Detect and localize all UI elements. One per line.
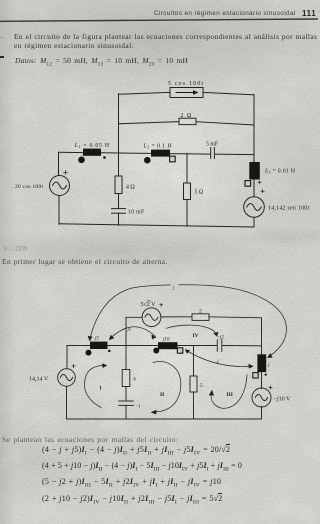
resistor 4 [122, 370, 130, 387]
inductor L2 body [151, 150, 170, 157]
wire 4ohm branch [118, 153, 120, 176]
inductor L3 body [249, 162, 259, 180]
problem number remnant [1, 31, 3, 40]
svg-text:I: I [100, 386, 102, 392]
source circle 20cos100t [50, 176, 70, 196]
square mark of L1 [103, 156, 105, 158]
source circle 5sqrt2 [142, 308, 161, 327]
wire top branch right [203, 92, 254, 94]
capacitor -j plates [119, 400, 134, 402]
capacitor 5mF plates [210, 148, 212, 159]
plus of left source [64, 171, 67, 174]
wire main row [67, 345, 90, 347]
svg-text:j5: j5 [94, 337, 99, 342]
dot of L1 [78, 157, 85, 164]
resistor 4ohm [115, 176, 122, 194]
arrowhead M23 arc left [185, 349, 190, 354]
plus of -j10 source [269, 386, 272, 389]
dot mark near j coil square [265, 374, 267, 376]
arrowhead M13 arc right [267, 353, 273, 358]
open square of L3 [245, 181, 251, 187]
svg-text:4 Ω: 4 Ω [126, 185, 135, 191]
plus of 14,14V source [72, 364, 75, 367]
open square of L2 [170, 156, 176, 162]
svg-text:II: II [160, 392, 164, 398]
resistor 2ohm [179, 118, 196, 124]
svg-text:−j2: −j2 [217, 336, 225, 341]
svg-text:2 Ω: 2 Ω [181, 113, 193, 119]
statement paragraph [14, 32, 317, 51]
resistor 2 [192, 314, 209, 321]
margin artifact dash [0, 56, 4, 58]
wire 5 column [193, 346, 195, 377]
mutual arc j (M23) [187, 351, 252, 367]
inductor L1 body [83, 149, 101, 156]
datos line [15, 56, 188, 67]
svg-text:IV: IV [193, 333, 199, 339]
wire top source branch [125, 317, 127, 345]
paper gap behind arc label j [171, 283, 179, 290]
equations intro [2, 435, 178, 444]
square mark of j5 [108, 350, 110, 352]
svg-text:j5: j5 [127, 328, 132, 333]
svg-text:4: 4 [133, 377, 136, 383]
mesh arrow III [211, 375, 247, 409]
svg-text:5 mF: 5 mF [206, 142, 219, 148]
LOWER CIRCUIT [0, 282, 320, 430]
mesh arrow I [84, 365, 103, 407]
svg-text:j: j [216, 359, 219, 365]
arrowhead M13 arc left [88, 336, 93, 341]
source circle 14,14 [58, 369, 76, 387]
svg-text:L1 = 0.05 H: L1 = 0.05 H [74, 143, 110, 149]
svg-text:−j10 V: −j10 V [274, 397, 291, 403]
wire main row [59, 151, 84, 153]
plus of 5sqrt2 source [160, 303, 163, 306]
header page number [302, 9, 316, 18]
dot of j5 [86, 350, 92, 356]
wire left column [66, 346, 68, 369]
wire right column lower [261, 372, 263, 389]
dot of L2 [144, 157, 151, 164]
svg-text:2: 2 [199, 309, 202, 315]
dot of j10 [153, 348, 159, 354]
mutual arc j5 (M12) [111, 327, 156, 338]
svg-text:20 cos 100t: 20 cos 100t [15, 184, 43, 190]
solution heading [4, 245, 27, 253]
mesh arrow II [153, 362, 181, 412]
svg-text:14,142 sen 100t: 14,142 sen 100t [268, 206, 309, 212]
wire bottom row [67, 418, 262, 420]
sine in right source [247, 204, 261, 211]
svg-text:14,14 V: 14,14 V [29, 377, 49, 383]
arrowhead M23 arc right [248, 364, 253, 369]
svg-text:10 mF: 10 mF [128, 210, 145, 216]
source circle 14142sen100t [244, 197, 265, 218]
svg-text:L2 = 0.1 H: L2 = 0.1 H [143, 144, 173, 150]
plus near L3 square [258, 181, 261, 184]
resistor 5ohm [184, 183, 191, 200]
UPPER CIRCUIT [0, 75, 320, 240]
open square of j10 [177, 348, 182, 353]
wire left column [58, 152, 60, 175]
wire top branch left [119, 92, 171, 94]
radical overbar of 5sqrt2 [147, 300, 150, 302]
equations [42, 445, 230, 457]
wire right riser [253, 94, 255, 162]
arrowhead j5 arc left [109, 335, 114, 341]
wire left riser of top branches [118, 94, 120, 153]
current source box 5cos100t [170, 88, 203, 98]
inductor j5 body [90, 342, 108, 349]
wire 2ohm branch [119, 122, 180, 124]
mesh arrowhead II [151, 410, 157, 415]
mesh arrowhead IV [213, 332, 218, 337]
wire 5ohm branch [186, 153, 188, 183]
solution intro [2, 257, 168, 266]
svg-text:5√2 V: 5√2 V [141, 301, 157, 308]
capacitor 10mF plates [112, 208, 126, 210]
source circle -j10 [252, 388, 271, 407]
svg-text:j10: j10 [162, 338, 170, 343]
capacitor -j2 plates [216, 340, 218, 352]
inductor j body [257, 354, 266, 372]
mesh arrow IV [167, 325, 217, 334]
wire middle column [125, 346, 127, 370]
svg-text:5 Ω: 5 Ω [195, 190, 204, 196]
svg-text:L3 = 0.01 H: L3 = 0.01 H [264, 169, 296, 175]
arrow in current source [176, 92, 193, 94]
resistor 5 [190, 376, 197, 392]
mesh arrowhead I [102, 363, 107, 368]
svg-text:j: j [267, 363, 270, 368]
mesh arrowhead III [209, 390, 214, 396]
header title [154, 10, 296, 17]
wire bottom row [59, 224, 254, 227]
arrowhead j5 arc right [151, 334, 156, 339]
plus of right source [261, 190, 264, 193]
wire right column top [261, 318, 263, 355]
svg-text:III: III [227, 392, 233, 398]
svg-text:5 cos 100t: 5 cos 100t [168, 81, 204, 87]
svg-text:−j: −j [136, 404, 141, 409]
open square of j coil [253, 373, 258, 378]
inductor j10 body [158, 342, 178, 349]
header rule [0, 0, 320, 26]
svg-text:5: 5 [200, 383, 203, 389]
wire right column to source [253, 180, 255, 197]
sine in left source [53, 182, 67, 189]
mutual arc j (M13) [90, 285, 286, 357]
